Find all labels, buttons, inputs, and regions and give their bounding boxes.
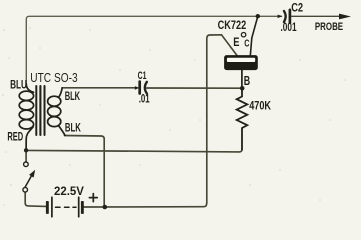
- svg-text:.01: .01: [139, 94, 150, 106]
- svg-text:22.5V: 22.5V: [54, 184, 85, 198]
- svg-text:E: E: [233, 35, 239, 49]
- svg-text:BLU: BLU: [10, 77, 27, 91]
- svg-text:BLK: BLK: [65, 122, 81, 135]
- svg-text:RED: RED: [7, 130, 23, 144]
- svg-text:C1: C1: [138, 70, 147, 82]
- svg-text:BLK: BLK: [65, 90, 81, 103]
- svg-text:.001: .001: [281, 22, 298, 34]
- svg-text:CK722: CK722: [218, 20, 247, 32]
- svg-text:PROBE: PROBE: [315, 21, 344, 33]
- svg-text:C: C: [244, 38, 250, 49]
- svg-text:470K: 470K: [249, 99, 271, 113]
- svg-text:UTC SO-3: UTC SO-3: [30, 71, 77, 85]
- svg-text:B: B: [244, 73, 250, 88]
- svg-text:C2: C2: [291, 3, 303, 15]
